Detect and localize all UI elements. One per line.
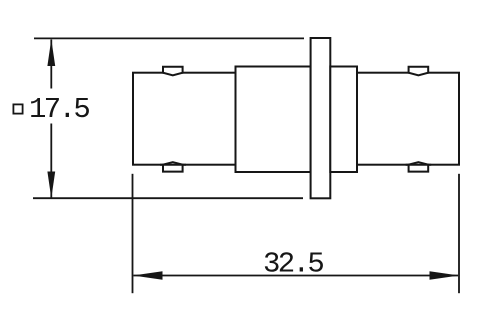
top extension line: [34, 37, 304, 39]
right connector body: [357, 73, 459, 165]
bottom extension line: [33, 197, 303, 199]
right bottom bayonet lug: [409, 162, 429, 172]
vertical dimension line lower segment: [50, 124, 52, 198]
up arrowhead: [47, 39, 55, 66]
wire right body bottom edge over lug: [406, 164, 432, 166]
right extension line for length: [458, 174, 460, 293]
wire left body bottom edge over lug: [160, 164, 186, 166]
svg-text:17.5: 17.5: [29, 93, 89, 126]
down arrowhead: [47, 172, 55, 199]
square symbol: [13, 104, 22, 113]
left bottom bayonet lug: [163, 162, 183, 172]
svg-text:32.5: 32.5: [263, 247, 323, 280]
left extension line for length: [132, 174, 134, 293]
horizontal dimension line: [134, 275, 459, 277]
left connector body: [133, 73, 236, 165]
left top bayonet lug: [163, 67, 183, 76]
right arrowhead: [430, 271, 460, 279]
vertical dimension line upper segment: [50, 40, 52, 89]
flange plate: [311, 38, 331, 198]
center block: [236, 67, 311, 173]
right top bayonet lug: [409, 67, 429, 76]
washer section: [330, 67, 357, 173]
left arrowhead: [133, 271, 163, 279]
